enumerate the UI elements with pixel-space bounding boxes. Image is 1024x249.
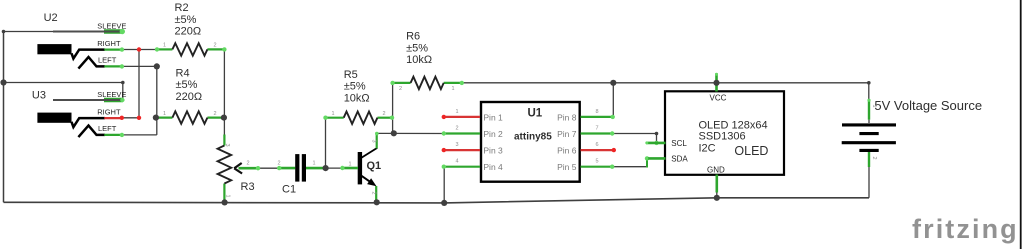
node: junction Q1 collector / R5.2 / U1 pin2 bbox=[391, 130, 397, 136]
node: junction U1 pin4 / ground rail bbox=[441, 200, 447, 206]
svg-text:LEFT: LEFT bbox=[98, 56, 117, 65]
wire: R6.2 down through R5.2 to Pin2 node bbox=[392, 84, 394, 134]
node: junction Q1 emitter / ground rail bbox=[374, 199, 380, 205]
svg-text:1: 1 bbox=[871, 105, 877, 108]
fritzing watermark bbox=[912, 214, 1019, 244]
wire: U3 sleeve riser bbox=[4, 83, 123, 101]
svg-text:Pin 5: Pin 5 bbox=[557, 162, 577, 172]
battery 5V voltage source bbox=[842, 98, 982, 167]
node: red endpoint U3 right pin bbox=[120, 116, 124, 120]
pin SCL bbox=[646, 142, 665, 145]
svg-text:attiny85: attiny85 bbox=[514, 131, 552, 142]
wire: R2.2 to R4.2 vertical bbox=[223, 49, 225, 117]
pin 3 bbox=[444, 149, 481, 151]
resistor R4 bbox=[156, 67, 224, 124]
svg-text:10kΩ: 10kΩ bbox=[344, 93, 370, 105]
svg-text:2: 2 bbox=[278, 161, 281, 167]
svg-text:SLEEVE: SLEEVE bbox=[97, 90, 126, 99]
wire: ground bottom rail bbox=[4, 198, 870, 203]
pin 1 bbox=[444, 116, 481, 118]
svg-text:2: 2 bbox=[871, 157, 877, 160]
transistor Q1 bbox=[340, 132, 381, 201]
svg-text:Pin 2: Pin 2 bbox=[483, 129, 503, 139]
wire: R3 wiper to C1.2 bbox=[258, 167, 279, 169]
wire: R4.2 down to R3 top bbox=[223, 118, 225, 135]
svg-text:Pin 3: Pin 3 bbox=[483, 146, 503, 156]
pin GND bbox=[715, 175, 718, 193]
svg-text:1: 1 bbox=[452, 86, 455, 92]
svg-text:2: 2 bbox=[370, 192, 376, 195]
svg-text:5: 5 bbox=[596, 159, 599, 165]
svg-text:4: 4 bbox=[456, 159, 459, 165]
svg-text:R6: R6 bbox=[406, 31, 420, 43]
svg-text:8: 8 bbox=[596, 109, 599, 115]
resistor R2 bbox=[155, 2, 227, 56]
node: red endpoint U3 right link bbox=[137, 116, 141, 120]
svg-text:1: 1 bbox=[456, 109, 459, 115]
node: green endpoint SCL bbox=[654, 141, 658, 145]
wire: U2 left pin to left net bbox=[122, 65, 157, 67]
svg-text:U1: U1 bbox=[528, 107, 543, 119]
node: junction R4.1 / left net bbox=[153, 115, 159, 121]
svg-text:R2: R2 bbox=[175, 2, 189, 14]
svg-text:±5%: ±5% bbox=[176, 79, 198, 91]
svg-text:U2: U2 bbox=[44, 12, 58, 24]
svg-text:RIGHT: RIGHT bbox=[97, 108, 121, 117]
wire: U1 pin 5 to OLED SDA bbox=[613, 158, 648, 167]
svg-text:LEFT: LEFT bbox=[98, 124, 117, 133]
svg-text:SDA: SDA bbox=[671, 155, 688, 164]
svg-text:7: 7 bbox=[596, 126, 599, 132]
svg-text:SSD1306: SSD1306 bbox=[699, 131, 746, 143]
potentiometer R3 bbox=[218, 135, 261, 200]
resistor R6 bbox=[390, 31, 464, 92]
svg-text:±5%: ±5% bbox=[344, 81, 366, 93]
svg-text:2: 2 bbox=[247, 161, 250, 167]
wire: U3 right link bbox=[122, 117, 139, 119]
wire: Q1 collector node to U1 pin 2 bbox=[377, 132, 444, 134]
node: corner bend at battery top bbox=[867, 81, 871, 85]
wire: left net vertical (U2 left / R4.1 / U3 left) bbox=[156, 66, 158, 134]
svg-text:VCC: VCC bbox=[710, 94, 727, 103]
svg-text:U3: U3 bbox=[32, 89, 46, 101]
wire: ground left rail bbox=[3, 32, 5, 203]
wire: OLED GND to ground rail bbox=[716, 191, 718, 198]
svg-text:I2C: I2C bbox=[699, 143, 716, 155]
node: junction VCC rail / U1 pin 8 bbox=[610, 80, 616, 86]
svg-text:220Ω: 220Ω bbox=[175, 26, 202, 38]
node: junction VCC rail / OLED VCC bbox=[713, 80, 719, 86]
svg-text:±5%: ±5% bbox=[175, 14, 197, 26]
svg-text:2: 2 bbox=[214, 111, 217, 117]
svg-text:2: 2 bbox=[214, 43, 217, 49]
svg-text:Pin 7: Pin 7 bbox=[557, 129, 577, 139]
node: junction C1.1 / R5.1 / Q1 base bbox=[323, 165, 329, 171]
node: junction U2 left / left net bbox=[154, 63, 160, 69]
wire: battery minus to ground rail bbox=[868, 167, 870, 198]
svg-text:220Ω: 220Ω bbox=[176, 91, 203, 103]
wire: U3 left pin to left net bbox=[123, 134, 157, 136]
svg-text:1: 1 bbox=[163, 111, 166, 117]
svg-text:6: 6 bbox=[596, 142, 599, 148]
svg-text:GND: GND bbox=[707, 166, 725, 175]
node: junction OLED GND / ground rail bbox=[714, 195, 720, 201]
pin 2 bbox=[444, 132, 481, 134]
audio jack U3 bbox=[32, 89, 126, 137]
window border right bbox=[1020, 0, 1022, 249]
svg-text:Pin 8: Pin 8 bbox=[557, 112, 577, 122]
svg-text:1: 1 bbox=[349, 161, 352, 167]
node: bend dot U3 sleeve riser corner bbox=[121, 81, 125, 85]
svg-text:R5: R5 bbox=[344, 69, 358, 81]
svg-text:3: 3 bbox=[370, 140, 376, 143]
svg-text:1: 1 bbox=[332, 111, 335, 117]
node: junction R4.2 / R2-R3 net bbox=[221, 115, 227, 121]
node: corner bend U2 sleeve bbox=[2, 30, 6, 34]
svg-text:Pin 6: Pin 6 bbox=[557, 146, 577, 156]
svg-text:fritzing: fritzing bbox=[912, 214, 1019, 244]
pin 8 bbox=[581, 116, 614, 118]
node: junction ground rail / U3 sleeve bbox=[0, 79, 6, 85]
svg-text:SLEEVE: SLEEVE bbox=[97, 22, 126, 31]
node: junction R3 bottom / ground rail bbox=[222, 199, 228, 205]
audio jack U2 bbox=[37, 12, 126, 69]
pin SDA bbox=[646, 157, 665, 160]
IC U1 attiny85 bbox=[442, 102, 616, 182]
svg-text:1: 1 bbox=[163, 43, 166, 49]
pin VCC bbox=[715, 73, 718, 91]
svg-text:10kΩ: 10kΩ bbox=[406, 54, 432, 66]
wire: U2 right down to U3 right bbox=[138, 50, 140, 118]
node: bend dot pin7/SCL bbox=[655, 132, 659, 136]
resistor R5 bbox=[323, 69, 394, 124]
svg-text:OLED 128x64: OLED 128x64 bbox=[699, 119, 768, 131]
svg-text:SCL: SCL bbox=[671, 139, 687, 148]
pin 4 bbox=[444, 166, 481, 168]
wire: VCC rail from R6.1 to battery bbox=[462, 83, 869, 100]
svg-text:1: 1 bbox=[224, 195, 230, 198]
svg-text:R3: R3 bbox=[241, 181, 255, 193]
wire: U1 pin 4 to ground rail bbox=[443, 167, 445, 203]
svg-text:Pin 1: Pin 1 bbox=[483, 112, 503, 122]
svg-text:OLED: OLED bbox=[734, 144, 768, 158]
svg-text:2: 2 bbox=[456, 126, 459, 132]
svg-text:2: 2 bbox=[399, 86, 402, 92]
svg-text:1: 1 bbox=[313, 161, 316, 167]
wire: U1 pin 7 to OLED SCL bbox=[613, 134, 657, 143]
svg-text:RIGHT: RIGHT bbox=[97, 39, 121, 48]
capacitor C1 bbox=[277, 154, 326, 195]
svg-text:5V Voltage Source: 5V Voltage Source bbox=[874, 98, 982, 113]
wire: VCC rail drop to U1 pin 8 bbox=[612, 83, 614, 117]
svg-text:±5%: ±5% bbox=[406, 42, 428, 54]
svg-text:Q1: Q1 bbox=[367, 160, 382, 172]
wire: C1.1 / R5.1 / Q1 base riser bbox=[326, 119, 343, 168]
svg-text:2: 2 bbox=[383, 111, 386, 117]
OLED module SSD1306 bbox=[645, 73, 784, 193]
node: green endpoint SDA bbox=[645, 156, 649, 160]
pin 5 bbox=[581, 166, 613, 168]
svg-text:R4: R4 bbox=[176, 67, 190, 79]
node: red endpoint U2 right junction bbox=[137, 47, 141, 51]
svg-text:C1: C1 bbox=[282, 184, 296, 196]
pin 6 bbox=[581, 149, 614, 151]
svg-text:3: 3 bbox=[224, 144, 230, 147]
wire: U2 right pin to R2 pin 1 bbox=[122, 49, 157, 51]
svg-text:3: 3 bbox=[456, 142, 459, 148]
svg-text:Pin 4: Pin 4 bbox=[483, 162, 503, 172]
pin 7 bbox=[581, 132, 613, 134]
wire: U2 sleeve to left rail bbox=[4, 31, 54, 33]
